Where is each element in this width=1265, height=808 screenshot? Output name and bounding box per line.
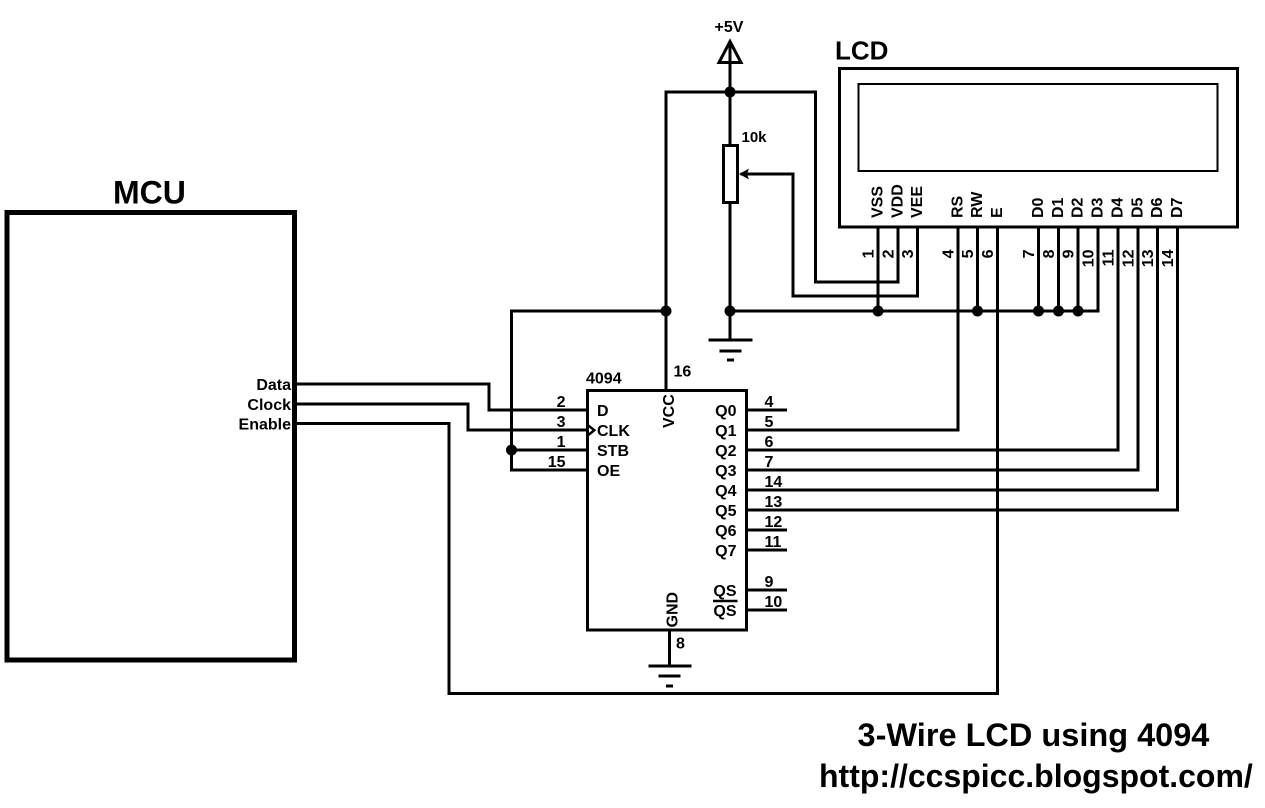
wire Clock: MCU to 4094 pin CLK [295, 404, 588, 430]
wire VDD: +5V rail to LCD pin 2 [816, 91, 899, 283]
svg-text:Enable: Enable [239, 417, 292, 434]
wire QS stub pin 9 [747, 589, 788, 592]
svg-text:CLK: CLK [597, 423, 630, 440]
svg-text:Clock: Clock [247, 397, 291, 414]
svg-text:http://ccspicc.blogspot.com/: http://ccspicc.blogspot.com/ [819, 758, 1253, 794]
svg-text:OE: OE [597, 463, 620, 480]
wire LCD VSS to ground bus [877, 227, 880, 311]
ground symbol below potentiometer [709, 340, 753, 360]
wire wiper to LCD pin VEE [741, 174, 918, 296]
svg-text:MCU: MCU [113, 175, 186, 211]
svg-text:3: 3 [900, 249, 917, 258]
svg-text:Q2: Q2 [715, 443, 736, 460]
svg-text:14: 14 [765, 474, 783, 491]
svg-text:14: 14 [1160, 249, 1177, 267]
junction ground bus D1 [1053, 306, 1064, 317]
svg-text:QS: QS [713, 603, 736, 620]
svg-text:12: 12 [765, 514, 783, 531]
svg-text:Q7: Q7 [715, 543, 736, 560]
wire pot bottom to ground [729, 202, 732, 339]
svg-text:GND: GND [665, 592, 682, 628]
ground symbol below 4094 [649, 666, 692, 686]
wire Q7 stub pin 11 [747, 549, 788, 552]
svg-text:D6: D6 [1149, 197, 1166, 218]
svg-text:10: 10 [1081, 249, 1098, 267]
svg-text:5: 5 [765, 414, 774, 431]
wire VCC drop to 4094 pin 16 [665, 91, 668, 393]
wire VCC tie to STB and OE [512, 311, 667, 470]
IC U1 4094 box [588, 391, 747, 631]
svg-text:Q5: Q5 [715, 503, 736, 520]
svg-text:Q4: Q4 [715, 483, 736, 500]
potentiometer RV1 10k body [724, 146, 738, 203]
wire Q2 to LCD D4 [747, 227, 1119, 450]
svg-text:16: 16 [674, 364, 692, 381]
svg-text:5: 5 [960, 249, 977, 258]
svg-text:D4: D4 [1110, 197, 1127, 218]
svg-text:2: 2 [881, 249, 898, 258]
svg-text:E: E [989, 207, 1006, 218]
wire LCD RW to ground bus [976, 227, 979, 311]
wire Data: MCU to 4094 pin D [295, 384, 588, 410]
svg-text:Q0: Q0 [715, 403, 736, 420]
svg-text:12: 12 [1121, 249, 1138, 267]
wire 4094 GND pin 8 [668, 630, 671, 665]
wire pot top [729, 92, 732, 145]
wire Enable: MCU to LCD pin E [295, 227, 998, 694]
svg-text:11: 11 [765, 534, 782, 551]
svg-text:8: 8 [1041, 249, 1058, 258]
wire Q5 to LCD D7 [747, 227, 1178, 510]
junction ground bus D0 [1033, 306, 1044, 317]
svg-text:9: 9 [765, 574, 774, 591]
svg-text:VCC: VCC [661, 394, 678, 428]
svg-text:4094: 4094 [586, 371, 622, 388]
svg-text:1: 1 [557, 434, 566, 451]
svg-text:LCD: LCD [835, 36, 888, 66]
4094 QS-bar overline [713, 600, 738, 603]
wire QS-bar stub pin 10 [747, 609, 788, 612]
junction ground bus RW [972, 306, 983, 317]
svg-text:RW: RW [969, 191, 986, 218]
svg-text:15: 15 [548, 454, 566, 471]
junction ground bus VSS [873, 306, 884, 317]
svg-text:2: 2 [557, 394, 566, 411]
LCD screen [859, 84, 1218, 171]
svg-text:8: 8 [676, 636, 685, 653]
svg-text:1: 1 [861, 249, 878, 258]
LCD LCD1 box [840, 69, 1238, 228]
svg-text:+5V: +5V [715, 19, 744, 36]
svg-text:13: 13 [1140, 249, 1157, 267]
svg-text:D: D [597, 403, 609, 420]
svg-text:6: 6 [765, 434, 774, 451]
svg-text:RS: RS [950, 195, 967, 218]
svg-text:STB: STB [597, 443, 629, 460]
svg-text:3: 3 [557, 414, 566, 431]
svg-text:4: 4 [941, 249, 958, 258]
wire LCD D1 to ground bus [1057, 227, 1060, 311]
svg-text:Data: Data [256, 377, 291, 394]
svg-text:10: 10 [765, 594, 783, 611]
potentiometer wiper arrow [739, 169, 749, 180]
svg-text:7: 7 [1021, 249, 1038, 258]
svg-text:D1: D1 [1050, 197, 1067, 218]
junction +5V rail / pot top [725, 87, 736, 98]
svg-text:6: 6 [980, 249, 997, 258]
svg-text:3-Wire LCD using 4094: 3-Wire LCD using 4094 [858, 717, 1210, 753]
svg-text:9: 9 [1061, 249, 1078, 258]
svg-text:QS: QS [713, 583, 736, 600]
MCU U1 box [7, 213, 295, 661]
junction STB tie [506, 445, 517, 456]
wire Q1 to LCD RS [747, 227, 959, 430]
junction VCC drop / STB-OE tie [661, 306, 672, 317]
svg-text:D7: D7 [1169, 197, 1186, 218]
svg-text:D3: D3 [1090, 197, 1107, 218]
+5V power symbol arrow [719, 42, 741, 93]
svg-text:VSS: VSS [870, 186, 887, 218]
svg-text:Q1: Q1 [715, 423, 736, 440]
wire +5V rail [666, 91, 816, 94]
wire Q4 to LCD D6 [747, 227, 1158, 490]
svg-text:VEE: VEE [909, 186, 926, 218]
wire LCD D2 to ground bus [1077, 227, 1080, 311]
wire ground bus to LCD pins 1,5,7,8,9,10 [730, 227, 1098, 311]
svg-text:4: 4 [765, 394, 774, 411]
svg-text:Q3: Q3 [715, 463, 736, 480]
junction ground bus D2 [1073, 306, 1084, 317]
svg-text:D0: D0 [1030, 197, 1047, 218]
wire Q6 stub pin 12 [747, 529, 788, 532]
wire STB stub [512, 449, 588, 452]
svg-text:7: 7 [765, 454, 774, 471]
junction pot bottom / ground bus [725, 306, 736, 317]
svg-text:D5: D5 [1130, 197, 1147, 218]
svg-text:13: 13 [765, 494, 783, 511]
wire LCD D0 to ground bus [1037, 227, 1040, 311]
wire Q0 stub pin 4 [747, 409, 788, 412]
wire Q3 to LCD D5 [747, 227, 1139, 470]
svg-text:10k: 10k [742, 129, 768, 146]
svg-text:11: 11 [1101, 249, 1118, 266]
svg-text:D2: D2 [1070, 197, 1087, 218]
svg-text:Q6: Q6 [715, 523, 736, 540]
svg-text:VDD: VDD [890, 184, 907, 218]
4094 clock input wedge [588, 425, 595, 436]
